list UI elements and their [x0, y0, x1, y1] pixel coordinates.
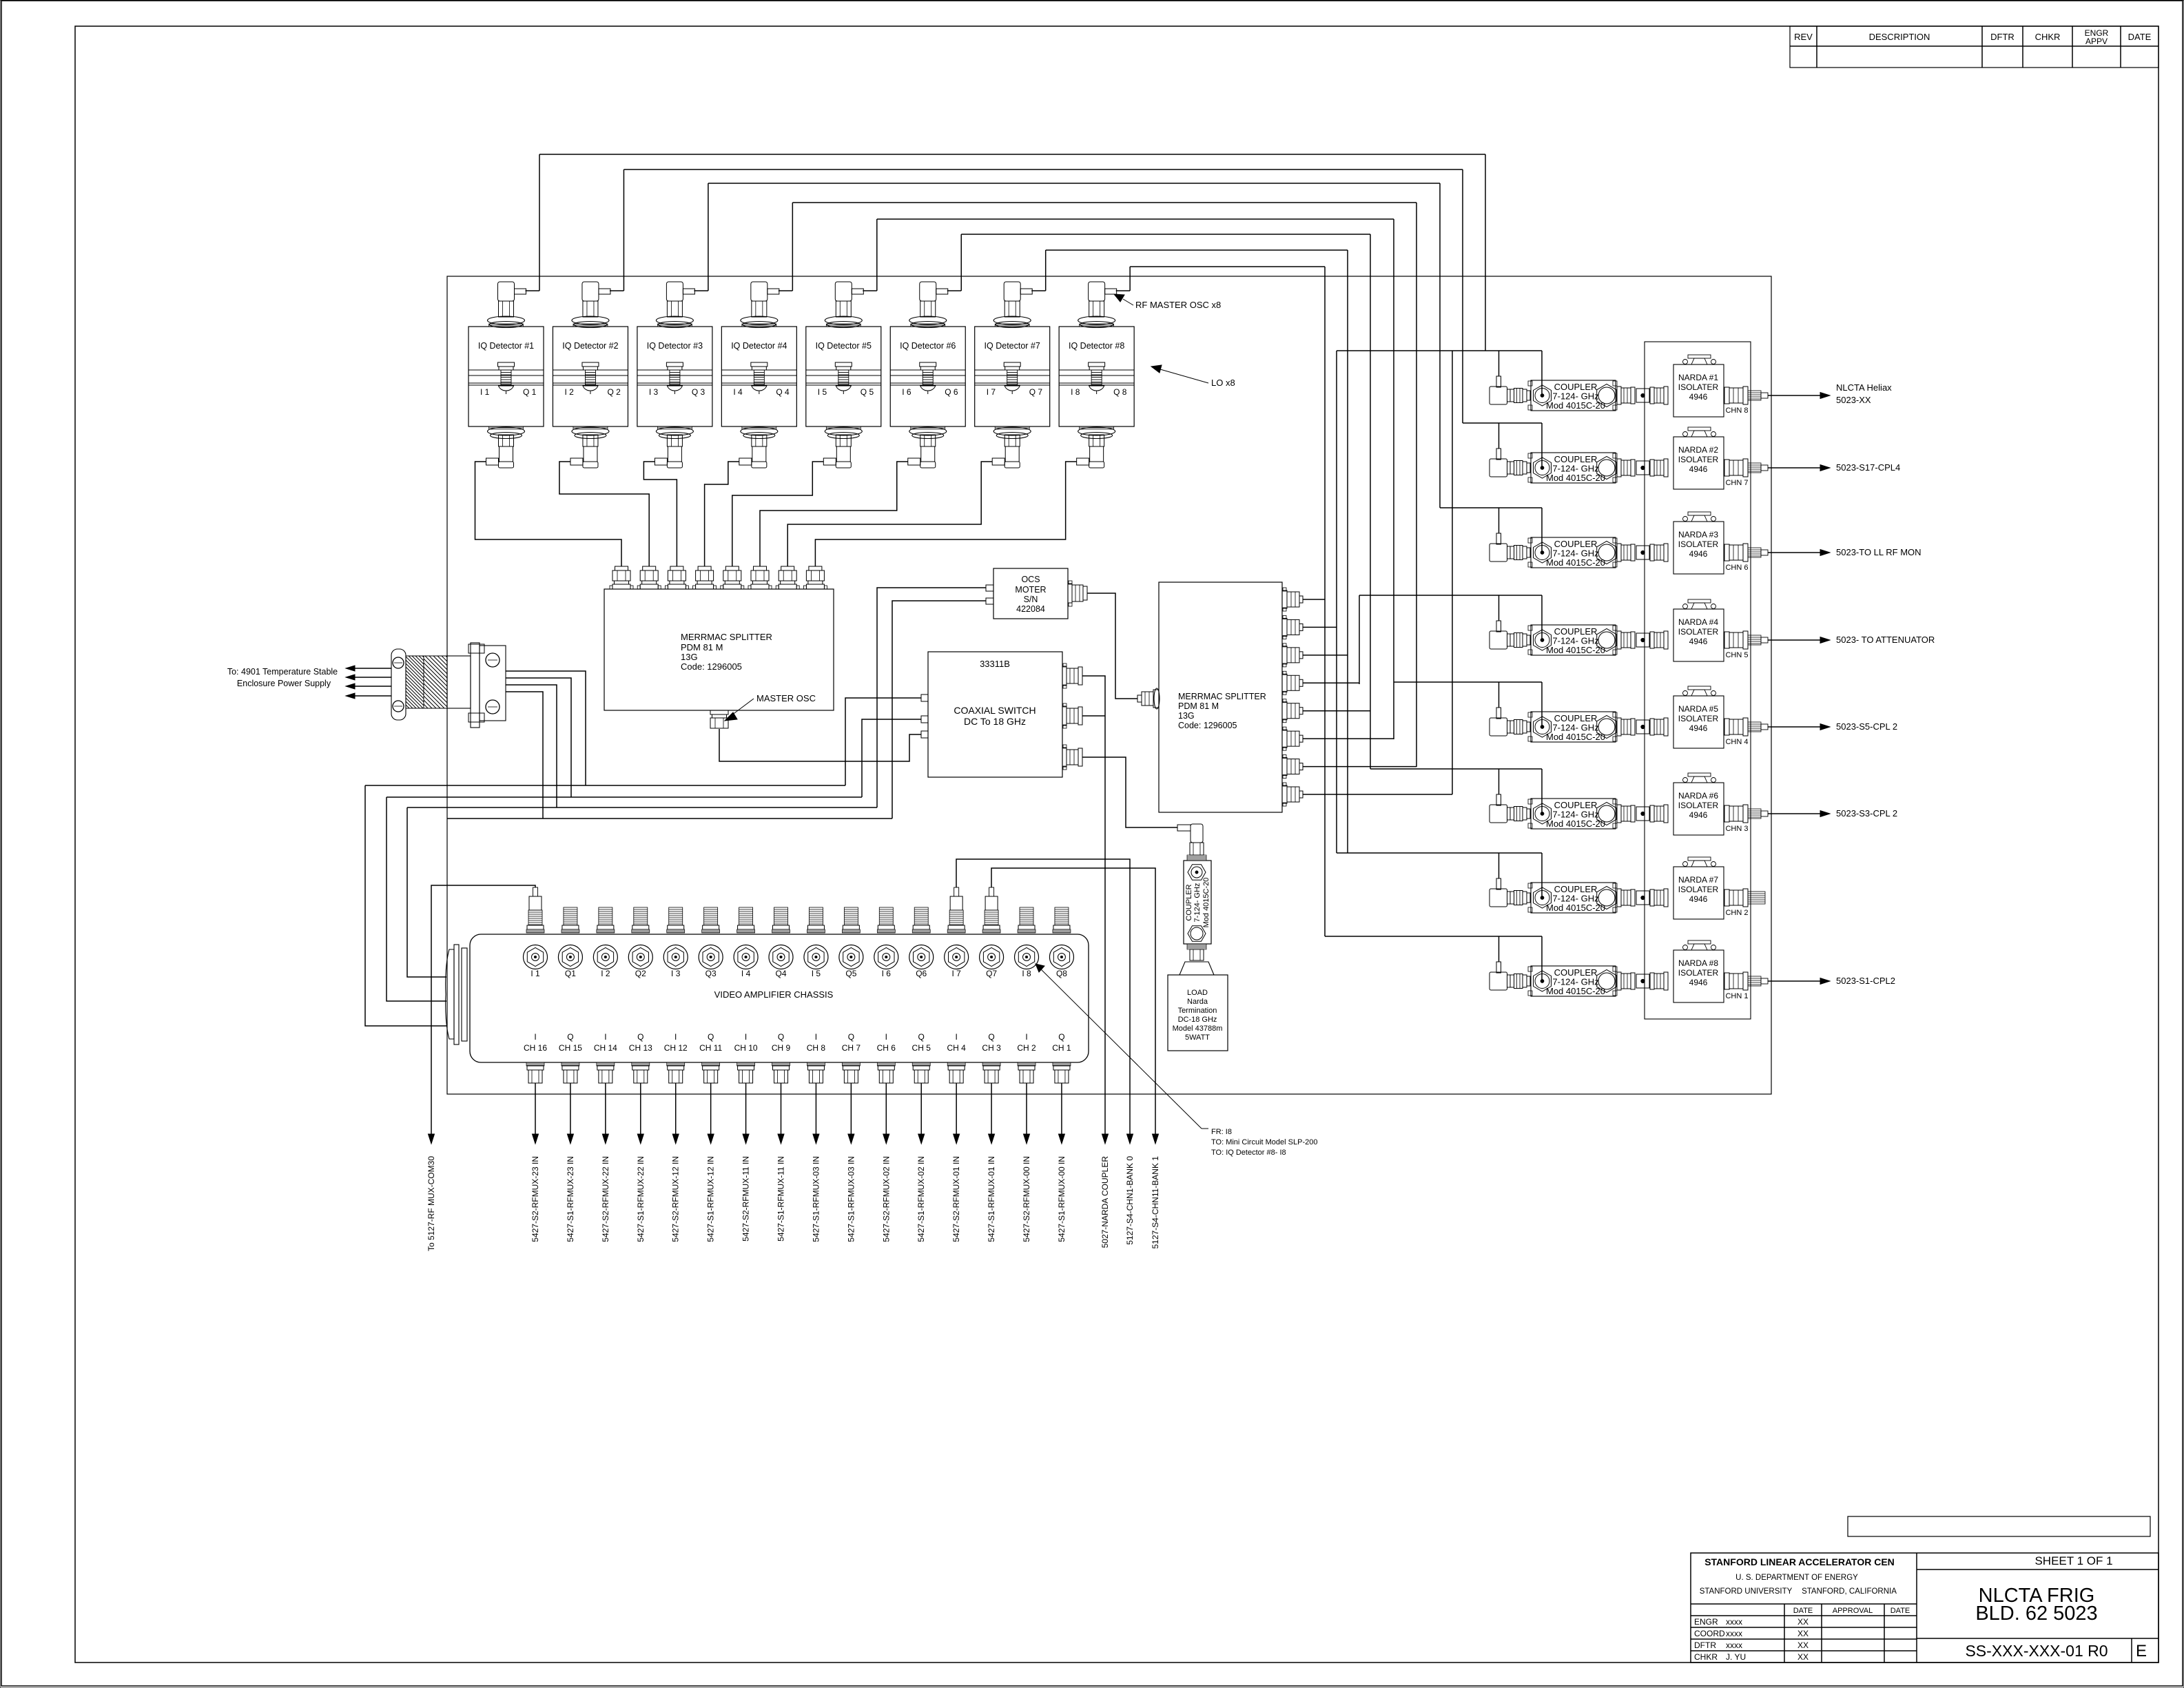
svg-text:U. S. DEPARTMENT OF ENERGY: U. S. DEPARTMENT OF ENERGY [1735, 1574, 1858, 1582]
svg-text:I: I [534, 1032, 536, 1042]
svg-text:Q4: Q4 [776, 969, 787, 978]
svg-text:5023-S17-CPL4: 5023-S17-CPL4 [1836, 462, 1900, 473]
svg-text:4946: 4946 [1689, 392, 1708, 402]
svg-text:NARDA #4: NARDA #4 [1678, 617, 1718, 627]
svg-text:5127-S4-CHN11-BANK 1: 5127-S4-CHN11-BANK 1 [1151, 1156, 1160, 1249]
svg-text:Q 6: Q 6 [945, 387, 958, 397]
svg-text:5427-S2-RFMUX-02 IN: 5427-S2-RFMUX-02 IN [881, 1156, 891, 1242]
svg-text:I 1: I 1 [480, 387, 490, 397]
svg-text:XX: XX [1797, 1640, 1809, 1650]
svg-text:Q: Q [778, 1032, 784, 1042]
svg-text:Q: Q [637, 1032, 643, 1042]
svg-text:IQ Detector #8: IQ Detector #8 [1069, 341, 1124, 351]
svg-text:Q: Q [1058, 1032, 1064, 1042]
svg-text:5427-S2-RFMUX-22 IN: 5427-S2-RFMUX-22 IN [601, 1156, 610, 1242]
svg-text:Mod 4015C-20: Mod 4015C-20 [1546, 557, 1605, 568]
svg-text:4946: 4946 [1689, 723, 1708, 733]
svg-text:CH 6: CH 6 [877, 1043, 896, 1053]
svg-text:LO x8: LO x8 [1211, 378, 1235, 388]
svg-text:SS-XXX-XXX-01 R0: SS-XXX-XXX-01 R0 [1965, 1642, 2108, 1660]
svg-text:xxxx: xxxx [1726, 1617, 1742, 1627]
svg-text:Q 8: Q 8 [1113, 387, 1127, 397]
svg-text:MASTER OSC: MASTER OSC [756, 693, 816, 703]
svg-text:4946: 4946 [1689, 549, 1708, 559]
svg-text:NARDA #8: NARDA #8 [1678, 958, 1718, 968]
svg-text:CHN 1: CHN 1 [1725, 992, 1748, 1000]
svg-text:4946: 4946 [1689, 978, 1708, 987]
svg-text:MERRMAC SPLITTER: MERRMAC SPLITTER [681, 632, 772, 642]
svg-text:COAXIAL SWITCH: COAXIAL SWITCH [954, 705, 1036, 716]
svg-text:ISOLATER: ISOLATER [1678, 885, 1719, 894]
svg-text:IQ Detector #6: IQ Detector #6 [900, 341, 956, 351]
svg-text:IQ Detector #2: IQ Detector #2 [562, 341, 618, 351]
svg-text:5427-S1-RFMUX-12 IN: 5427-S1-RFMUX-12 IN [706, 1156, 716, 1242]
svg-text:ENGR: ENGR [1694, 1617, 1718, 1627]
svg-text:DFTR: DFTR [1694, 1640, 1716, 1650]
svg-text:DATE: DATE [1793, 1607, 1813, 1615]
svg-text:I 3: I 3 [671, 969, 681, 978]
svg-text:Q8: Q8 [1056, 969, 1067, 978]
svg-text:CH 12: CH 12 [664, 1043, 688, 1053]
svg-text:Mod 4015C-20: Mod 4015C-20 [1546, 732, 1605, 742]
svg-text:CHN 4: CHN 4 [1725, 738, 1748, 746]
svg-text:5427-S1-RFMUX-11 IN: 5427-S1-RFMUX-11 IN [776, 1156, 786, 1242]
svg-text:Q 4: Q 4 [776, 387, 790, 397]
svg-text:I 4: I 4 [733, 387, 743, 397]
svg-text:I 1: I 1 [530, 969, 540, 978]
svg-text:DC To 18 GHz: DC To 18 GHz [964, 716, 1026, 727]
svg-text:5023-XX: 5023-XX [1836, 395, 1871, 405]
svg-text:ISOLATER: ISOLATER [1678, 539, 1719, 549]
svg-text:Termination: Termination [1178, 1007, 1217, 1015]
svg-text:MOTER: MOTER [1015, 585, 1046, 595]
svg-text:13G: 13G [1178, 711, 1195, 721]
svg-text:CHN 5: CHN 5 [1725, 651, 1748, 659]
svg-text:STANFORD LINEAR ACCELERATOR CE: STANFORD LINEAR ACCELERATOR CEN [1704, 1556, 1895, 1567]
svg-text:TO: Mini Circuit Model SLP-200: TO: Mini Circuit Model SLP-200 [1211, 1138, 1317, 1146]
svg-text:PDM 81 M: PDM 81 M [681, 642, 723, 652]
svg-text:Q6: Q6 [916, 969, 927, 978]
svg-text:CH 4: CH 4 [947, 1043, 966, 1053]
svg-text:I: I [1025, 1032, 1027, 1042]
svg-text:Mod 4015C-20: Mod 4015C-20 [1546, 645, 1605, 655]
svg-text:5427-S2-RFMUX-00 IN: 5427-S2-RFMUX-00 IN [1022, 1156, 1031, 1242]
svg-text:5427-S1-RFMUX-02 IN: 5427-S1-RFMUX-02 IN [916, 1156, 926, 1242]
svg-text:I 5: I 5 [818, 387, 827, 397]
svg-text:STANFORD UNIVERSITY: STANFORD UNIVERSITY [1700, 1587, 1793, 1596]
svg-text:COUPLER: COUPLER [1185, 884, 1193, 920]
svg-text:I 7: I 7 [951, 969, 961, 978]
svg-text:REV: REV [1794, 32, 1813, 42]
svg-text:Q7: Q7 [986, 969, 997, 978]
svg-text:CH 14: CH 14 [594, 1043, 617, 1053]
svg-text:CH 5: CH 5 [912, 1043, 931, 1053]
svg-text:5023-S5-CPL 2: 5023-S5-CPL 2 [1836, 721, 1897, 732]
svg-text:APPV: APPV [2085, 37, 2108, 46]
svg-text:NLCTA Heliax: NLCTA Heliax [1836, 382, 1892, 393]
svg-text:NARDA #5: NARDA #5 [1678, 704, 1718, 714]
svg-text:ISOLATER: ISOLATER [1678, 627, 1719, 637]
svg-text:Q 1: Q 1 [523, 387, 537, 397]
svg-text:Q3: Q3 [705, 969, 717, 978]
svg-text:APPROVAL: APPROVAL [1833, 1607, 1873, 1615]
svg-text:5427-S1-RFMUX-03 IN: 5427-S1-RFMUX-03 IN [846, 1156, 856, 1242]
svg-text:DFTR: DFTR [1990, 32, 2015, 42]
svg-text:5127-S4-CHN1-BANK 0: 5127-S4-CHN1-BANK 0 [1125, 1156, 1135, 1245]
svg-text:4946: 4946 [1689, 810, 1708, 820]
svg-text:Q 5: Q 5 [861, 387, 874, 397]
svg-text:5427-S1-RFMUX-03 IN: 5427-S1-RFMUX-03 IN [811, 1156, 821, 1242]
svg-text:CHN 6: CHN 6 [1725, 564, 1748, 572]
svg-text:I: I [674, 1032, 677, 1042]
svg-text:Q 2: Q 2 [607, 387, 621, 397]
svg-text:5023-TO LL RF MON: 5023-TO LL RF MON [1836, 547, 1922, 557]
svg-text:Q: Q [708, 1032, 714, 1042]
svg-text:To: 4901 Temperature Stable: To: 4901 Temperature Stable [227, 667, 338, 677]
svg-text:OCS: OCS [1021, 575, 1040, 584]
svg-text:4946: 4946 [1689, 637, 1708, 646]
svg-text:BLD. 62 5023: BLD. 62 5023 [1975, 1603, 2097, 1625]
svg-text:CHN 8: CHN 8 [1725, 406, 1748, 415]
svg-text:5427-S2-RFMUX-23 IN: 5427-S2-RFMUX-23 IN [530, 1156, 540, 1242]
svg-text:NARDA #3: NARDA #3 [1678, 530, 1718, 539]
svg-text:MERRMAC SPLITTER: MERRMAC SPLITTER [1178, 692, 1266, 701]
svg-text:I 8: I 8 [1022, 969, 1031, 978]
svg-text:I: I [885, 1032, 887, 1042]
svg-text:To 5127-RF MUX-COM30: To 5127-RF MUX-COM30 [426, 1156, 436, 1251]
svg-text:I 4: I 4 [741, 969, 751, 978]
svg-text:I 3: I 3 [649, 387, 659, 397]
svg-text:PDM 81 M: PDM 81 M [1178, 701, 1219, 711]
svg-text:Q: Q [918, 1032, 925, 1042]
svg-text:TO: IQ Detector #8- I8: TO: IQ Detector #8- I8 [1211, 1149, 1286, 1157]
svg-text:DESCRIPTION: DESCRIPTION [1869, 32, 1930, 42]
svg-text:5027-NARDA COUPLER: 5027-NARDA COUPLER [1100, 1156, 1110, 1248]
svg-text:CH 2: CH 2 [1017, 1043, 1036, 1053]
svg-text:IQ Detector #3: IQ Detector #3 [647, 341, 703, 351]
svg-text:4946: 4946 [1689, 464, 1708, 474]
svg-text:CH 8: CH 8 [807, 1043, 826, 1053]
svg-text:Code: 1296005: Code: 1296005 [681, 661, 742, 672]
svg-text:ISOLATER: ISOLATER [1678, 801, 1719, 810]
svg-text:5023-S3-CPL 2: 5023-S3-CPL 2 [1836, 808, 1897, 819]
svg-text:CHN 3: CHN 3 [1725, 825, 1748, 833]
svg-text:5427-S1-RFMUX-00 IN: 5427-S1-RFMUX-00 IN [1057, 1156, 1067, 1242]
svg-text:7-124- GHz: 7-124- GHz [1193, 883, 1202, 923]
svg-text:5023- TO ATTENUATOR: 5023- TO ATTENUATOR [1836, 635, 1935, 645]
svg-text:CH 1: CH 1 [1052, 1043, 1071, 1053]
svg-text:ISOLATER: ISOLATER [1678, 968, 1719, 978]
svg-text:I 7: I 7 [987, 387, 996, 397]
svg-text:NARDA #6: NARDA #6 [1678, 791, 1718, 801]
svg-text:5427-S2-RFMUX-12 IN: 5427-S2-RFMUX-12 IN [671, 1156, 681, 1242]
svg-text:I 6: I 6 [882, 969, 892, 978]
svg-text:ISOLATER: ISOLATER [1678, 382, 1719, 392]
svg-text:I: I [815, 1032, 817, 1042]
svg-text:NARDA #2: NARDA #2 [1678, 445, 1718, 455]
svg-text:ISOLATER: ISOLATER [1678, 714, 1719, 723]
svg-text:Q2: Q2 [635, 969, 646, 978]
svg-text:4946: 4946 [1689, 894, 1708, 904]
svg-text:5WATT: 5WATT [1185, 1033, 1210, 1042]
svg-text:IQ Detector #5: IQ Detector #5 [816, 341, 872, 351]
svg-text:33311B: 33311B [980, 659, 1010, 669]
svg-text:LOAD: LOAD [1187, 989, 1208, 997]
svg-text:I 6: I 6 [902, 387, 911, 397]
svg-text:Mod 4015C-20: Mod 4015C-20 [1546, 986, 1605, 996]
svg-text:I 8: I 8 [1071, 387, 1080, 397]
svg-text:Mod 4015C-20: Mod 4015C-20 [1546, 473, 1605, 483]
svg-text:CH 10: CH 10 [734, 1043, 758, 1053]
svg-text:Q 7: Q 7 [1029, 387, 1043, 397]
svg-text:Q1: Q1 [565, 969, 576, 978]
svg-text:xxxx: xxxx [1726, 1629, 1742, 1638]
svg-text:CH 16: CH 16 [524, 1043, 547, 1053]
svg-text:5023-S1-CPL2: 5023-S1-CPL2 [1836, 976, 1895, 986]
svg-text:xxxx: xxxx [1726, 1640, 1742, 1650]
svg-text:NARDA #7: NARDA #7 [1678, 875, 1718, 885]
svg-text:CH 11: CH 11 [699, 1043, 722, 1053]
svg-text:CH 13: CH 13 [629, 1043, 652, 1053]
svg-text:CH 7: CH 7 [842, 1043, 861, 1053]
svg-text:COORD: COORD [1694, 1629, 1725, 1638]
svg-text:Mod 4015C-20: Mod 4015C-20 [1202, 878, 1211, 928]
svg-text:IQ Detector #4: IQ Detector #4 [731, 341, 787, 351]
svg-text:I: I [604, 1032, 606, 1042]
svg-text:Mod 4015C-20: Mod 4015C-20 [1546, 903, 1605, 913]
svg-text:DATE: DATE [2128, 32, 2152, 42]
svg-text:CH 3: CH 3 [982, 1043, 1001, 1053]
svg-text:CHN 2: CHN 2 [1725, 909, 1748, 917]
svg-text:5427-S1-RFMUX-22 IN: 5427-S1-RFMUX-22 IN [636, 1156, 646, 1242]
svg-text:DC-18 GHz: DC-18 GHz [1178, 1016, 1217, 1024]
svg-text:Mod 4015C-20: Mod 4015C-20 [1546, 400, 1605, 411]
svg-text:XX: XX [1797, 1617, 1809, 1627]
svg-text:CH 9: CH 9 [772, 1043, 791, 1053]
svg-text:XX: XX [1797, 1629, 1809, 1638]
svg-text:CHKR: CHKR [1694, 1652, 1718, 1662]
svg-text:5427-S1-RFMUX-23 IN: 5427-S1-RFMUX-23 IN [566, 1156, 575, 1242]
svg-text:I 2: I 2 [564, 387, 574, 397]
svg-text:S/N: S/N [1024, 595, 1038, 604]
svg-text:5427-S2-RFMUX-11 IN: 5427-S2-RFMUX-11 IN [741, 1156, 751, 1242]
svg-text:XX: XX [1797, 1652, 1809, 1662]
svg-text:Enclosure Power Supply: Enclosure Power Supply [237, 679, 331, 688]
svg-text:J. YU: J. YU [1726, 1652, 1746, 1662]
svg-text:Q 3: Q 3 [692, 387, 705, 397]
svg-text:ISOLATER: ISOLATER [1678, 455, 1719, 464]
svg-text:CHN 7: CHN 7 [1725, 479, 1748, 487]
svg-text:5427-S2-RFMUX-01 IN: 5427-S2-RFMUX-01 IN [951, 1156, 961, 1242]
svg-text:I: I [955, 1032, 957, 1042]
svg-text:RF MASTER OSC x8: RF MASTER OSC x8 [1135, 300, 1221, 310]
svg-text:13G: 13G [681, 652, 698, 662]
svg-text:I 5: I 5 [812, 969, 821, 978]
svg-text:IQ Detector #7: IQ Detector #7 [985, 341, 1040, 351]
svg-text:Model 43788m: Model 43788m [1173, 1025, 1223, 1033]
svg-text:Q: Q [988, 1032, 994, 1042]
svg-text:DATE: DATE [1891, 1607, 1910, 1615]
svg-text:SHEET 1 OF 1: SHEET 1 OF 1 [2034, 1554, 2112, 1567]
svg-text:E: E [2136, 1642, 2147, 1660]
svg-text:VIDEO AMPLIFIER CHASSIS: VIDEO AMPLIFIER CHASSIS [714, 989, 834, 1000]
svg-text:Code: 1296005: Code: 1296005 [1178, 721, 1237, 730]
svg-text:FR: I8: FR: I8 [1211, 1128, 1232, 1136]
svg-text:I: I [745, 1032, 747, 1042]
svg-text:Q5: Q5 [845, 969, 856, 978]
svg-text:NARDA #1: NARDA #1 [1678, 373, 1718, 382]
svg-text:Mod 4015C-20: Mod 4015C-20 [1546, 819, 1605, 829]
svg-text:422084: 422084 [1016, 604, 1045, 614]
svg-text:IQ Detector #1: IQ Detector #1 [478, 341, 534, 351]
svg-text:Q: Q [567, 1032, 573, 1042]
svg-text:5427-S1-RFMUX-01 IN: 5427-S1-RFMUX-01 IN [987, 1156, 996, 1242]
svg-text:Narda: Narda [1187, 998, 1208, 1006]
svg-text:I 2: I 2 [601, 969, 610, 978]
svg-text:STANFORD, CALIFORNIA: STANFORD, CALIFORNIA [1802, 1587, 1897, 1596]
svg-text:CHKR: CHKR [2035, 32, 2061, 42]
svg-text:CH 15: CH 15 [559, 1043, 582, 1053]
svg-text:Q: Q [848, 1032, 854, 1042]
